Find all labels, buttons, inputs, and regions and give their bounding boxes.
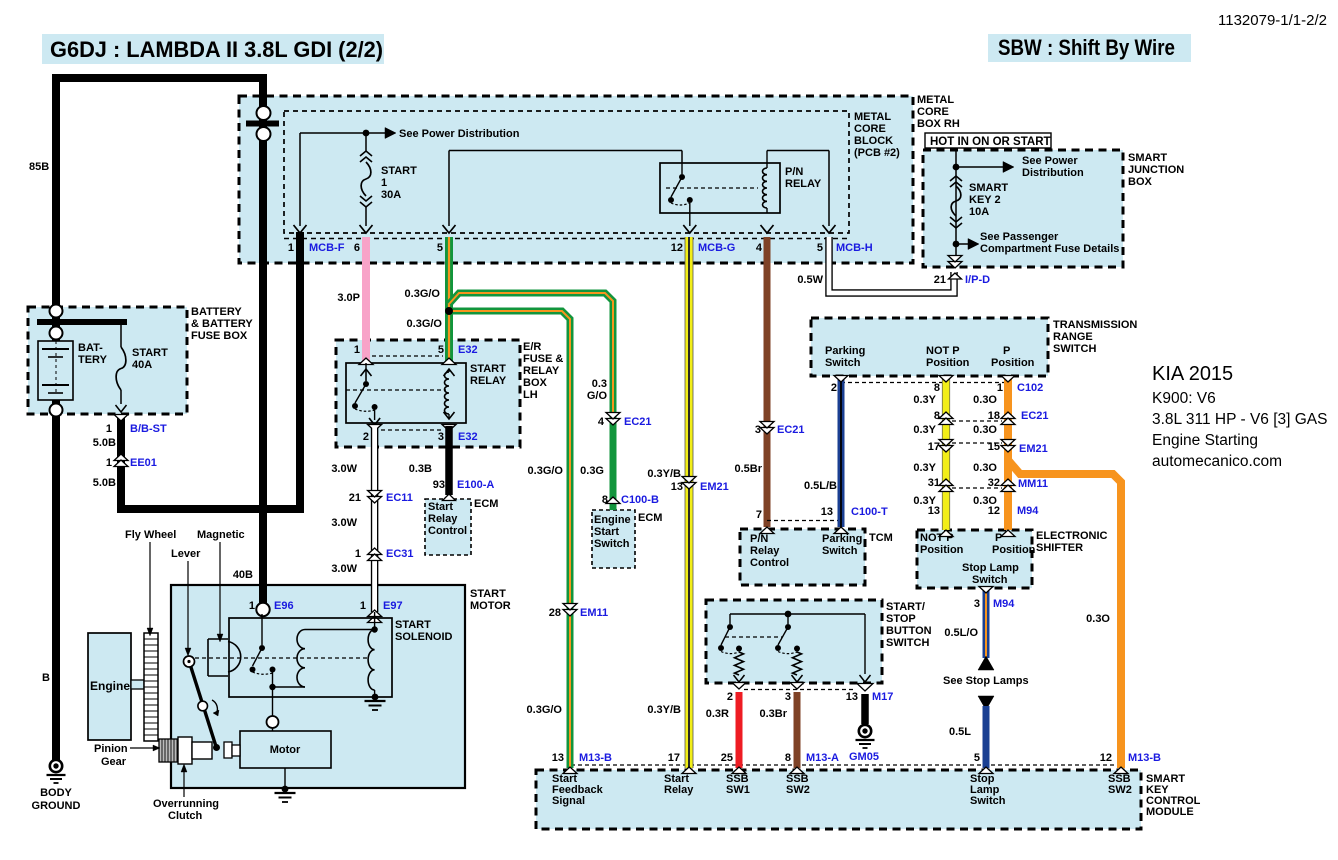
svg-text:See Power: See Power [1022, 155, 1078, 167]
svg-text:P: P [995, 532, 1002, 544]
svg-text:Distribution: Distribution [1022, 167, 1084, 179]
fuse START 40A [120, 322, 122, 347]
node power junction [363, 130, 370, 137]
svg-text:1132079-1/1-2/2: 1132079-1/1-2/2 [1218, 12, 1327, 29]
svg-text:BOX: BOX [1128, 176, 1153, 188]
connector C100-B [606, 497, 620, 504]
svg-text:EC21: EC21 [777, 424, 805, 436]
svg-text:SBW : Shift By Wire: SBW : Shift By Wire [998, 35, 1175, 60]
svg-text:3.0P: 3.0P [337, 292, 360, 304]
svg-text:EM11: EM11 [580, 607, 608, 619]
wire 3.0P [362, 237, 370, 362]
svg-text:Engine: Engine [90, 679, 130, 693]
box ER FUSE RELAY BOX LH [336, 340, 520, 447]
svg-text:B/B-ST: B/B-ST [130, 423, 167, 435]
svg-text:SW2: SW2 [786, 784, 810, 796]
wire PN out to MCB-G12 [689, 203, 691, 226]
wire top bar [52, 74, 267, 82]
wire 0.3B [445, 426, 453, 495]
svg-text:METAL: METAL [854, 111, 891, 123]
pin arrow MCB-F1 [294, 225, 307, 233]
svg-text:85B: 85B [29, 161, 49, 173]
svg-text:12: 12 [671, 242, 683, 254]
svg-text:Stop Lamp: Stop Lamp [962, 562, 1019, 574]
svg-text:METAL: METAL [917, 94, 954, 106]
svg-text:Parking: Parking [825, 345, 865, 357]
pinion gear [159, 739, 178, 762]
arrow sjb passenger fuse [959, 243, 968, 245]
pin arrow TCM 13 [834, 527, 848, 534]
svg-text:93: 93 [433, 479, 445, 491]
svg-text:12: 12 [988, 505, 1000, 517]
svg-text:1: 1 [360, 600, 366, 612]
wire bottom bar [117, 505, 304, 513]
body ground [50, 760, 62, 772]
svg-text:Start: Start [594, 526, 619, 538]
svg-text:Relay: Relay [750, 545, 780, 557]
flywheel [144, 633, 158, 741]
pin arrow MCB-G12 [683, 225, 696, 233]
box START STOP BUTTON SWITCH [706, 600, 882, 683]
ssb top wire [730, 613, 865, 615]
svg-text:C100-T: C100-T [851, 506, 888, 518]
box METAL CORE BLOCK PCB2 inner [284, 111, 849, 233]
svg-text:GM05: GM05 [849, 751, 879, 763]
wire MCB-F1 down [296, 232, 304, 512]
svg-text:13: 13 [928, 505, 940, 517]
svg-text:Engine Starting: Engine Starting [1152, 432, 1258, 449]
connector EC21 ladder [939, 412, 953, 419]
svg-text:17: 17 [928, 441, 940, 453]
svg-text:SWITCH: SWITCH [886, 637, 929, 649]
svg-text:0.3G/O: 0.3G/O [528, 465, 564, 477]
wire 0.3R [736, 692, 743, 768]
fuse SMART KEY 2 10A [950, 176, 962, 181]
svg-text:31: 31 [928, 477, 940, 489]
svg-text:E97: E97 [383, 600, 403, 612]
svg-text:See Stop Lamps: See Stop Lamps [943, 675, 1029, 687]
svg-text:Control: Control [428, 525, 467, 537]
ssb link dashed [725, 636, 782, 638]
sjb junction 1 [953, 164, 960, 171]
arrow see stop lamps up [978, 656, 994, 670]
connector row smart key [571, 764, 1120, 766]
svg-text:EE01: EE01 [130, 457, 157, 469]
start relay pin arrows bottom [369, 418, 380, 425]
svg-text:HOT IN ON OR START: HOT IN ON OR START [930, 136, 1051, 148]
svg-text:RELAY: RELAY [470, 375, 507, 387]
connector E100-A [443, 494, 456, 501]
pin arrow MCB-G4 [761, 225, 774, 233]
solenoid dashed axis [188, 657, 369, 659]
solenoid coil ground [372, 694, 379, 701]
svg-text:Control: Control [750, 557, 789, 569]
wire 0.3G/O branch B [449, 311, 570, 768]
node G/O junction [445, 307, 453, 315]
connector EM11 [563, 610, 577, 617]
svg-text:0.3Br: 0.3Br [759, 708, 787, 720]
pin arrow TRS 2 [834, 376, 848, 383]
wire to E96 [259, 74, 267, 608]
svg-text:0.3: 0.3 [592, 378, 607, 390]
svg-text:3.0W: 3.0W [331, 517, 357, 529]
svg-text:MCB-F: MCB-F [309, 242, 345, 254]
svg-text:13: 13 [671, 481, 683, 493]
pin arrow MCB-F6 [360, 225, 373, 233]
svg-text:C102: C102 [1017, 382, 1043, 394]
svg-text:Switch: Switch [972, 574, 1008, 586]
svg-text:BOX RH: BOX RH [917, 118, 960, 130]
connector EC21 brown [760, 428, 774, 435]
wire E97 into coil [374, 612, 376, 631]
svg-text:0.5L/O: 0.5L/O [944, 627, 978, 639]
solenoid coil wiring [273, 686, 306, 688]
wire 0.3O p [1004, 377, 1012, 530]
svg-text:KIA 2015: KIA 2015 [1152, 363, 1233, 385]
svg-text:0.3G: 0.3G [580, 465, 604, 477]
svg-text:ECM: ECM [638, 512, 662, 524]
svg-text:Relay: Relay [664, 784, 694, 796]
svg-text:Clutch: Clutch [168, 810, 203, 822]
ssb bottom chevrons [732, 683, 746, 690]
relay P/N [660, 163, 780, 213]
fuse START 1 30A [365, 136, 367, 151]
pin ssb sw2 8 [790, 767, 804, 774]
svg-text:0.3G/O: 0.3G/O [407, 318, 443, 330]
svg-text:SMART: SMART [969, 182, 1008, 194]
box METAL CORE BOX RH [239, 96, 913, 263]
svg-text:Gear: Gear [101, 756, 127, 768]
wire 5.0B [117, 415, 125, 509]
svg-text:P/N: P/N [750, 533, 768, 545]
svg-text:2: 2 [363, 431, 369, 443]
sjb wire [955, 148, 957, 262]
svg-text:1: 1 [106, 423, 112, 435]
svg-text:Overrunning: Overrunning [153, 798, 219, 810]
svg-text:2: 2 [831, 382, 837, 394]
svg-text:1: 1 [381, 177, 387, 189]
svg-text:5.0B: 5.0B [93, 477, 116, 489]
svg-text:Compartment Fuse Details: Compartment Fuse Details [980, 243, 1119, 255]
relay P/N switch [681, 163, 683, 174]
start relay coil [445, 372, 450, 414]
svg-text:M94: M94 [1017, 505, 1039, 517]
wire 0.5L [983, 706, 990, 768]
ssb arrow 13 [860, 675, 871, 682]
svg-text:E/R: E/R [523, 341, 541, 353]
box START MOTOR [171, 585, 465, 788]
svg-text:START: START [395, 619, 431, 631]
svg-text:LH: LH [523, 389, 538, 401]
svg-text:8: 8 [785, 752, 791, 764]
svg-text:SW1: SW1 [726, 784, 750, 796]
tcm connector row [767, 520, 840, 522]
wire 0.3G/O main [445, 237, 453, 362]
connector M13-B pin13 [563, 767, 577, 774]
connector IP-D [948, 262, 962, 269]
lever rotation arrow [212, 700, 217, 714]
svg-text:& BATTERY: & BATTERY [191, 318, 253, 330]
svg-text:Relay: Relay [428, 513, 458, 525]
svg-text:3: 3 [438, 431, 444, 443]
svg-text:EC21: EC21 [1021, 410, 1049, 422]
connector EM21 ladder [939, 446, 953, 453]
box ECM start relay control [425, 499, 471, 555]
svg-text:BAT-: BAT- [78, 342, 103, 354]
svg-text:BOX: BOX [523, 377, 548, 389]
svg-text:8: 8 [602, 494, 608, 506]
svg-text:0.3R: 0.3R [706, 708, 729, 720]
svg-text:40A: 40A [132, 359, 152, 371]
svg-text:2: 2 [727, 691, 733, 703]
svg-text:I/P-D: I/P-D [965, 274, 990, 286]
svg-text:0.5L: 0.5L [949, 726, 971, 738]
arrow clutch [183, 772, 185, 797]
start relay pin arrows top [359, 358, 373, 365]
engine box [88, 633, 131, 740]
svg-text:M94: M94 [993, 598, 1015, 610]
svg-text:13: 13 [821, 506, 833, 518]
svg-text:0.3O: 0.3O [973, 462, 997, 474]
svg-text:BUTTON: BUTTON [886, 625, 932, 637]
title highlight G6DJ [42, 34, 384, 64]
battery B1 [38, 341, 73, 400]
svg-text:Switch: Switch [970, 795, 1006, 807]
overrunning clutch [178, 737, 192, 764]
connector E97 [368, 610, 382, 617]
connector EC21 branchA [606, 419, 620, 426]
svg-text:25: 25 [721, 752, 733, 764]
pin arrow TRS 1 [1001, 376, 1015, 383]
svg-text:START: START [381, 165, 417, 177]
svg-text:5: 5 [817, 242, 823, 254]
svg-text:0.5L/B: 0.5L/B [804, 480, 837, 492]
svg-text:1: 1 [288, 242, 294, 254]
svg-text:BODY: BODY [40, 787, 72, 799]
svg-text:SWITCH: SWITCH [1053, 343, 1096, 355]
svg-text:40B: 40B [233, 569, 253, 581]
wire PN coil to MCB-H5 [766, 151, 768, 164]
pin stop lamp 5 [979, 767, 993, 774]
svg-text:GROUND: GROUND [32, 800, 81, 812]
svg-text:3: 3 [785, 691, 791, 703]
svg-text:30A: 30A [381, 189, 401, 201]
lever [189, 661, 217, 748]
svg-text:K900: V6: K900: V6 [1152, 390, 1216, 407]
svg-text:RELAY: RELAY [523, 365, 560, 377]
svg-text:Switch: Switch [825, 357, 861, 369]
svg-text:TERY: TERY [78, 354, 108, 366]
solenoid magnetic C [228, 642, 241, 673]
svg-text:E96: E96 [274, 600, 294, 612]
svg-text:21: 21 [349, 492, 361, 504]
svg-text:START: START [470, 588, 506, 600]
pin 17 start relay [682, 767, 696, 774]
wire sw to pin2 [374, 410, 376, 420]
connector EE01 [114, 454, 128, 461]
arrow magnetic [219, 542, 221, 634]
battery terminal circles [50, 305, 63, 318]
svg-text:STOP: STOP [886, 613, 916, 625]
ssb resistor 2 [793, 652, 802, 675]
box START SOLENOID [229, 618, 392, 697]
motor ground [284, 768, 286, 786]
ssb switch 2 [787, 614, 789, 624]
svg-text:MM11: MM11 [1018, 478, 1048, 490]
solenoid sw down [272, 670, 274, 687]
svg-text:7: 7 [756, 509, 762, 521]
svg-text:8: 8 [934, 382, 940, 394]
wire 0.5L/O [983, 588, 990, 658]
pin TCM 7 [760, 527, 774, 534]
svg-text:BLOCK: BLOCK [854, 135, 893, 147]
svg-text:C100-B: C100-B [621, 494, 659, 506]
svg-text:0.5W: 0.5W [797, 274, 823, 286]
wire 0.5Br [764, 237, 771, 527]
svg-text:G6DJ : LAMBDA II 3.8L GDI (2/2: G6DJ : LAMBDA II 3.8L GDI (2/2) [50, 37, 383, 62]
svg-text:3: 3 [755, 424, 761, 436]
start relay pins bottom row [381, 429, 443, 431]
pin ssb sw1 25 [732, 767, 746, 774]
svg-text:1: 1 [997, 382, 1003, 394]
svg-text:18: 18 [988, 410, 1000, 422]
svg-text:0.3B: 0.3B [409, 463, 432, 475]
arrow pinion [130, 747, 153, 749]
wire MCB-F1 internal [299, 133, 301, 226]
engine shaft [131, 680, 144, 689]
wire 0.3O branch [1008, 452, 1121, 768]
svg-text:3.0W: 3.0W [331, 563, 357, 575]
start relay switch [365, 363, 367, 381]
svg-text:5.0B: 5.0B [93, 437, 116, 449]
svg-text:See Power Distribution: See Power Distribution [399, 128, 520, 140]
wire 0.5W [829, 237, 954, 293]
svg-text:MODULE: MODULE [1146, 806, 1194, 818]
svg-text:13: 13 [552, 752, 564, 764]
ssb switch 1 [727, 624, 733, 630]
svg-text:FUSE BOX: FUSE BOX [191, 330, 248, 342]
box BATTERY FUSE BOX [28, 307, 187, 414]
svg-text:12: 12 [1100, 752, 1112, 764]
svg-text:Switch: Switch [822, 545, 858, 557]
box SMART JUNCTION BOX [923, 150, 1123, 267]
svg-text:TRANSMISSION: TRANSMISSION [1053, 319, 1137, 331]
svg-text:0.3O: 0.3O [973, 424, 997, 436]
arrow see stop lamps down [978, 696, 994, 710]
svg-text:Motor: Motor [270, 744, 301, 756]
svg-text:SMART: SMART [1128, 152, 1167, 164]
svg-text:START: START [470, 363, 506, 375]
svg-text:JUNCTION: JUNCTION [1128, 164, 1184, 176]
ssb node [785, 611, 792, 618]
wire 0.3Y/B [685, 237, 694, 768]
solenoid contact wire [261, 614, 263, 645]
svg-text:E32: E32 [458, 344, 478, 356]
wire 0.5L/B [838, 377, 845, 527]
svg-text:32: 32 [988, 477, 1000, 489]
wire 85B vertical [52, 74, 60, 341]
pin arrow TRS 8 [939, 376, 953, 383]
box TRANSMISSION RANGE SWITCH [811, 318, 1048, 376]
svg-text:28: 28 [549, 607, 561, 619]
svg-text:15: 15 [988, 441, 1000, 453]
svg-text:EC21: EC21 [624, 416, 652, 428]
box SMART KEY CONTROL MODULE [536, 770, 1141, 829]
svg-text:0.3G/O: 0.3G/O [405, 288, 441, 300]
svg-text:0.3O: 0.3O [1086, 613, 1110, 625]
svg-text:1: 1 [355, 548, 361, 560]
solenoid switch [259, 645, 265, 651]
svg-text:Magnetic: Magnetic [197, 529, 245, 541]
svg-text:BATTERY: BATTERY [191, 306, 242, 318]
svg-text:M17: M17 [872, 691, 893, 703]
svg-text:Position: Position [992, 544, 1036, 556]
svg-text:4: 4 [756, 242, 763, 254]
wire MCB-F5 internal [448, 151, 450, 227]
wire 3.0W [371, 428, 379, 612]
svg-text:START/: START/ [886, 601, 925, 613]
pin arrow MCB-H5 [823, 225, 836, 233]
wire M17 black [861, 694, 869, 724]
svg-text:RANGE: RANGE [1053, 331, 1093, 343]
box ELECTRONIC SHIFTER [917, 530, 1032, 588]
svg-text:Position: Position [920, 544, 964, 556]
box ECM engine start switch [592, 510, 635, 568]
svg-text:MCB-H: MCB-H [836, 242, 873, 254]
svg-text:Lever: Lever [171, 548, 201, 560]
arrow sjb power dist [959, 166, 1003, 168]
svg-text:Position: Position [991, 357, 1035, 369]
ssb resistor 1 [735, 652, 744, 675]
pin M13-B 12 [1114, 767, 1128, 774]
svg-text:3.8L 311 HP - V6 [3] GAS: 3.8L 311 HP - V6 [3] GAS [1152, 411, 1327, 428]
ground GM05 [859, 725, 871, 737]
arrow lever [187, 561, 189, 648]
svg-text:0.3Y: 0.3Y [913, 462, 936, 474]
svg-text:21: 21 [934, 274, 946, 286]
solenoid pullin coil [297, 630, 305, 688]
solenoid holdin coil [368, 630, 375, 691]
svg-text:4: 4 [598, 416, 605, 428]
inline connector circles [246, 121, 279, 127]
pin arrow MCB-F5 [443, 225, 456, 233]
svg-text:10A: 10A [969, 206, 989, 218]
svg-text:6: 6 [354, 242, 360, 254]
svg-text:EC11: EC11 [386, 492, 413, 504]
label HOT IN ON OR START [925, 133, 1051, 148]
svg-text:MOTOR: MOTOR [470, 600, 511, 612]
sjb junction 2 [953, 241, 960, 248]
svg-text:M13-B: M13-B [1128, 752, 1161, 764]
svg-text:5: 5 [438, 344, 444, 356]
connector MM11 ladder [939, 479, 953, 486]
connector EC11 [368, 497, 382, 504]
svg-text:START: START [132, 347, 168, 359]
svg-text:TCM: TCM [869, 532, 893, 544]
svg-text:Fly Wheel: Fly Wheel [125, 529, 176, 541]
title highlight SBW [988, 34, 1191, 62]
svg-text:P/N: P/N [785, 166, 803, 178]
ssb connector row [744, 689, 855, 691]
svg-text:SOLENOID: SOLENOID [395, 631, 453, 643]
svg-text:5: 5 [437, 242, 443, 254]
start relay pins top row [372, 355, 443, 357]
svg-text:Signal: Signal [552, 795, 585, 807]
svg-text:E100-A: E100-A [457, 479, 494, 491]
trs connector row [841, 382, 1008, 384]
svg-text:EC31: EC31 [386, 548, 414, 560]
svg-text:SHIFTER: SHIFTER [1036, 542, 1083, 554]
